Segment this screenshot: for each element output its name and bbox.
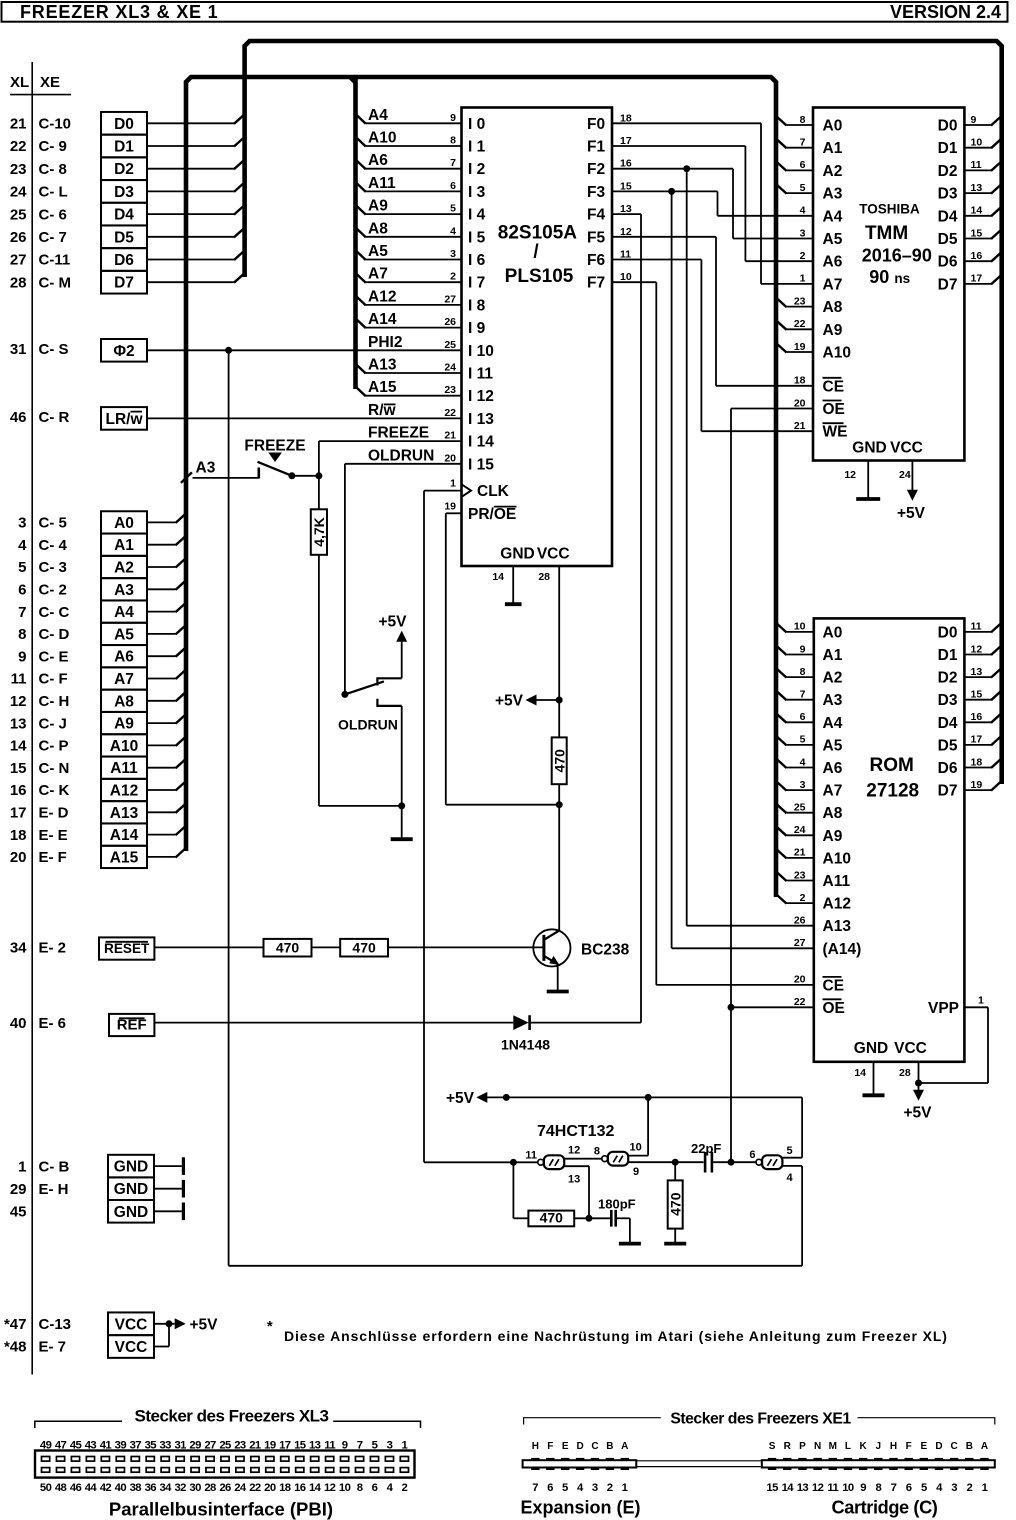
- svg-text:A: A: [981, 1441, 988, 1452]
- svg-text:D7: D7: [938, 276, 958, 293]
- svg-text:16: 16: [10, 782, 27, 799]
- svg-text:OE: OE: [823, 1000, 845, 1017]
- wire OLDRUN lower contact to ground node: [319, 706, 405, 810]
- svg-text:A7: A7: [114, 671, 134, 688]
- svg-text:15: 15: [10, 760, 27, 777]
- svg-text:3: 3: [800, 779, 806, 791]
- connector E pad B/2: [606, 1441, 614, 1494]
- wire A7 to address bus: [147, 669, 187, 679]
- +5V arrow at VCC pins: [175, 1316, 218, 1333]
- svg-text:C- H: C- H: [39, 693, 70, 710]
- svg-text:I 4: I 4: [468, 207, 486, 224]
- wire U3 A2 from address bus: [776, 668, 814, 678]
- wire U3 A10 from address bus: [776, 848, 814, 858]
- svg-text:*48: *48: [4, 1339, 27, 1356]
- connector E pad D/4: [576, 1441, 584, 1494]
- svg-text:5: 5: [787, 1145, 793, 1157]
- svg-text:3: 3: [450, 248, 456, 260]
- svg-text:D: D: [576, 1441, 583, 1452]
- svg-text:47: 47: [55, 1440, 67, 1452]
- svg-text:32: 32: [174, 1482, 186, 1494]
- connector C pad L/10: [842, 1441, 854, 1494]
- svg-text:E: E: [562, 1441, 569, 1452]
- svg-text:5: 5: [18, 559, 26, 576]
- wire D5 to data bus: [147, 227, 245, 237]
- svg-text:14: 14: [782, 1482, 795, 1494]
- wire F0 to RAM A7: [612, 123, 813, 284]
- svg-text:I 1: I 1: [468, 139, 486, 156]
- connector C pad K/9: [859, 1441, 868, 1494]
- wire U3 D6 to data bus: [964, 758, 1002, 768]
- svg-text:8: 8: [357, 1482, 363, 1494]
- svg-text:1: 1: [622, 1482, 628, 1494]
- svg-text:A4: A4: [114, 604, 134, 621]
- svg-text:A6: A6: [368, 152, 388, 169]
- resistor 470 (oscillator vertical): [667, 1162, 683, 1228]
- svg-text:9: 9: [860, 1482, 866, 1494]
- wire U1 input I12 from bus (A15): [355, 386, 461, 396]
- U1 pin name CLK: [462, 483, 510, 500]
- svg-text:A8: A8: [823, 299, 843, 316]
- svg-text:I 2: I 2: [468, 161, 485, 178]
- svg-text:4: 4: [800, 205, 806, 217]
- wire A6 to address bus: [147, 647, 187, 657]
- svg-text:23: 23: [234, 1440, 246, 1452]
- wire U2 D1 to data bus: [964, 138, 1002, 148]
- connector E pad H/7: [531, 1441, 539, 1494]
- wire U3 A0 from address bus: [776, 622, 814, 632]
- resistor 470 (RESET first): [264, 939, 312, 957]
- svg-text:I 11: I 11: [468, 366, 493, 383]
- svg-text:36: 36: [145, 1482, 157, 1494]
- svg-text:3: 3: [18, 515, 26, 532]
- wire U2 A8 from address bus: [776, 297, 814, 307]
- svg-text:16: 16: [971, 250, 983, 262]
- svg-text:A8: A8: [368, 220, 388, 237]
- wire D3 to data bus: [147, 182, 245, 192]
- wire F3 to RAM A4: [612, 191, 813, 215]
- pin table divider: [31, 62, 33, 1375]
- svg-text:C- R: C- R: [39, 409, 70, 426]
- connector XE1 expansion body: [523, 1460, 637, 1467]
- svg-text:D1: D1: [938, 647, 958, 664]
- svg-text:A2: A2: [114, 560, 134, 577]
- connector XL3 pad pair 49/50: [40, 1440, 52, 1494]
- svg-text:13: 13: [568, 1174, 580, 1186]
- pin row 40 E-6 box REF: [10, 1014, 155, 1036]
- svg-text:5: 5: [800, 182, 806, 194]
- svg-text:18: 18: [794, 375, 806, 387]
- svg-text:FREEZER XL3 & XE 1: FREEZER XL3 & XE 1: [20, 2, 218, 22]
- wire U1 input I0 from bus (A4): [355, 114, 461, 124]
- node F3 branch junction: [668, 188, 675, 195]
- pin row 29 E- H box GND: [10, 1177, 154, 1200]
- wire U2 A1 from address bus: [776, 138, 814, 148]
- svg-text:+5V: +5V: [446, 1090, 475, 1107]
- pin row 5 C- 3 box A2: [18, 556, 147, 578]
- svg-text:R: R: [784, 1441, 792, 1452]
- address bus: [186, 77, 776, 897]
- wire U2 A10 from address bus: [776, 343, 814, 353]
- U1 VCC pin 28 to +5V: [538, 566, 559, 737]
- svg-text:GND: GND: [500, 546, 534, 563]
- svg-text:Expansion (E): Expansion (E): [520, 1498, 640, 1518]
- svg-text:H: H: [532, 1441, 539, 1452]
- svg-text:6: 6: [906, 1482, 912, 1494]
- wire U2 D7 to data bus: [964, 274, 1002, 284]
- node 470 / 180pF / gate V1 pin13: [574, 1215, 610, 1222]
- wire A15 to address bus: [147, 847, 187, 857]
- capacitor 180pF: [598, 1197, 636, 1227]
- svg-text:A12: A12: [368, 288, 396, 305]
- svg-text:12: 12: [812, 1482, 824, 1494]
- wire U1 input I3 from bus (A11): [355, 182, 461, 192]
- svg-text:21: 21: [794, 847, 806, 859]
- pin row 34 E-2 box RESET: [10, 937, 155, 959]
- svg-text:C- 2: C- 2: [39, 582, 67, 599]
- connector XL3 pad pair 31/32: [174, 1440, 186, 1494]
- wire A12 to address bus: [147, 781, 187, 791]
- wire D2 to data bus: [147, 159, 245, 169]
- wire U3 A9 from address bus: [776, 826, 814, 836]
- wire D4 to data bus: [147, 205, 245, 215]
- svg-text:RESET: RESET: [104, 941, 150, 956]
- svg-text:1: 1: [18, 1158, 26, 1175]
- svg-text:K: K: [860, 1441, 868, 1452]
- svg-text:7: 7: [800, 137, 806, 149]
- svg-text:4: 4: [18, 537, 27, 554]
- svg-text:D6: D6: [938, 760, 958, 777]
- connector E pad C/3: [591, 1441, 599, 1494]
- svg-text:Parallelbusinterface (PBI): Parallelbusinterface (PBI): [109, 1499, 333, 1520]
- wire LR/W to U1 I13: [147, 417, 462, 419]
- connector XE1 cartridge body: [762, 1460, 995, 1467]
- wire A8 to address bus: [147, 691, 187, 701]
- svg-text:A11: A11: [110, 760, 138, 777]
- connector XL3 pad pair 29/30: [189, 1440, 201, 1494]
- svg-text:B: B: [606, 1441, 613, 1452]
- svg-text:F7: F7: [587, 275, 605, 292]
- data bus: [245, 41, 1002, 784]
- svg-text:A14: A14: [110, 827, 139, 844]
- gate V3 74HCT132 (pins 4,5,6): [749, 1145, 793, 1184]
- connector XL3 pad pair 33/34: [160, 1440, 173, 1494]
- wire U3 A8 from address bus: [776, 803, 814, 813]
- svg-text:1: 1: [978, 994, 984, 1006]
- wire F1 to RAM A6: [612, 146, 813, 261]
- svg-text:2: 2: [402, 1482, 408, 1494]
- svg-text:470: 470: [551, 749, 567, 773]
- svg-text:22: 22: [794, 318, 806, 330]
- svg-text:6: 6: [450, 180, 456, 192]
- svg-text:A1: A1: [823, 647, 843, 664]
- svg-text:A11: A11: [368, 175, 396, 192]
- connector XL3 pad pair 21/22: [249, 1440, 261, 1494]
- wire A10 to address bus: [147, 736, 187, 746]
- svg-text:F: F: [906, 1441, 912, 1452]
- svg-text:A8: A8: [823, 805, 843, 822]
- switch OLDRUN: [338, 678, 402, 732]
- wire gate V3 input 5 stub: [782, 1157, 802, 1159]
- wire GND 1 terminator: [154, 1157, 183, 1175]
- svg-text:FREEZE: FREEZE: [244, 437, 305, 454]
- svg-text:A9: A9: [823, 322, 843, 339]
- connector XL3 pad pair 41/42: [100, 1440, 112, 1494]
- svg-text:A13: A13: [368, 357, 397, 374]
- pin row 14 C- P box A10: [10, 734, 147, 756]
- svg-text:N: N: [814, 1441, 821, 1452]
- connector XE1 rails: [636, 1461, 762, 1467]
- connector XL3 pad pair 43/44: [85, 1440, 98, 1494]
- svg-text:8: 8: [450, 135, 456, 147]
- wire A4 to address bus: [147, 602, 187, 612]
- svg-text:C- 7: C- 7: [39, 229, 67, 246]
- wire U3 A7 from address bus: [776, 781, 814, 791]
- svg-text:Φ2: Φ2: [113, 343, 134, 360]
- wire A13 to address bus: [147, 803, 187, 813]
- svg-text:25: 25: [444, 339, 456, 351]
- wire U1 PR/OE pin 19: [446, 513, 462, 804]
- address bus branch to U1 inputs: [353, 79, 358, 389]
- svg-text:15: 15: [971, 689, 983, 701]
- svg-text:29: 29: [189, 1440, 201, 1452]
- wire U3 A5 from address bus: [776, 735, 814, 745]
- U2 ground pin 12: [844, 461, 880, 500]
- svg-text:A3: A3: [823, 186, 843, 203]
- wire F2 to RAM A5: [612, 169, 813, 239]
- svg-text:BC238: BC238: [581, 942, 630, 959]
- connector C pad M/11: [827, 1441, 838, 1494]
- svg-text:C- M: C- M: [39, 274, 72, 291]
- svg-text:28: 28: [538, 571, 550, 583]
- svg-text:E- 7: E- 7: [39, 1339, 67, 1356]
- wire A5 to address bus: [147, 624, 187, 634]
- svg-text:45: 45: [10, 1204, 27, 1221]
- svg-text:1: 1: [982, 1482, 988, 1494]
- svg-text:3: 3: [951, 1482, 957, 1494]
- wire BC238 collector to node: [558, 805, 560, 931]
- wire U2 D4 to data bus: [964, 206, 1002, 216]
- wire U1 input I6 from bus (A5): [355, 250, 461, 260]
- svg-text:C-10: C-10: [39, 116, 72, 133]
- svg-text:E- H: E- H: [39, 1181, 69, 1198]
- svg-text:9: 9: [450, 112, 456, 124]
- pin row *47 C-13 box VCC: [4, 1312, 154, 1335]
- svg-text:10: 10: [339, 1482, 351, 1494]
- svg-text:F2: F2: [587, 161, 605, 178]
- svg-text:ROM: ROM: [870, 755, 914, 776]
- pin row 8 C- D box A5: [18, 623, 147, 645]
- svg-text:A5: A5: [823, 231, 843, 248]
- ground at OLDRUN/4,7K node: [401, 806, 403, 838]
- svg-text:F4: F4: [587, 207, 605, 224]
- svg-text:D5: D5: [114, 229, 134, 246]
- svg-text:TOSHIBA: TOSHIBA: [859, 201, 920, 216]
- svg-text:E- F: E- F: [39, 849, 67, 866]
- svg-text:22: 22: [249, 1482, 261, 1494]
- connector XL3 pad pair 13/14: [309, 1440, 322, 1494]
- svg-text:A2: A2: [823, 670, 843, 687]
- svg-text:7: 7: [891, 1482, 897, 1494]
- wire FREEZE net to U1 I14: [319, 441, 462, 476]
- svg-text:15: 15: [294, 1440, 306, 1452]
- svg-text:D1: D1: [938, 140, 958, 157]
- svg-text:4: 4: [800, 756, 806, 768]
- svg-text:31: 31: [10, 341, 27, 358]
- svg-text:13: 13: [797, 1482, 809, 1494]
- svg-text:11: 11: [827, 1482, 838, 1494]
- svg-text:9: 9: [633, 1166, 639, 1178]
- wire GND 45 terminator: [154, 1203, 183, 1221]
- svg-text:19: 19: [264, 1440, 276, 1452]
- resistor 470 (oscillator): [528, 1210, 574, 1227]
- wire U1 input I7 from bus (A7): [355, 273, 461, 283]
- svg-text:A9: A9: [368, 198, 388, 215]
- wire U3 D7 to data bus: [964, 781, 1002, 791]
- svg-text:6: 6: [800, 711, 806, 723]
- svg-text:D0: D0: [938, 624, 958, 641]
- pin row 26 C- 7 box D5: [10, 225, 147, 248]
- pin row 9 C- E box A6: [18, 645, 147, 667]
- svg-text:C- D: C- D: [39, 626, 70, 643]
- svg-text:B: B: [966, 1441, 973, 1452]
- svg-text:CE: CE: [823, 378, 845, 395]
- svg-text:F6: F6: [587, 252, 605, 269]
- svg-text:I 7: I 7: [468, 275, 485, 292]
- svg-text:I 14: I 14: [468, 434, 494, 451]
- svg-text:34: 34: [10, 940, 27, 957]
- svg-text:A6: A6: [823, 254, 843, 271]
- U2 pin name CE: [823, 378, 845, 396]
- svg-text:10: 10: [794, 621, 806, 633]
- svg-text:12: 12: [844, 469, 856, 481]
- svg-text:470: 470: [540, 1210, 564, 1226]
- wire U2 D6 to data bus: [964, 252, 1002, 262]
- svg-text:34: 34: [160, 1482, 173, 1494]
- svg-text:25: 25: [219, 1440, 231, 1452]
- node F2 branch junction: [683, 165, 690, 172]
- svg-text:20: 20: [794, 397, 806, 409]
- wire A11 to address bus: [147, 758, 187, 768]
- +5V arrow at U1 VCC: [495, 693, 559, 710]
- connector XL3 pad pair 25/26: [219, 1440, 231, 1494]
- svg-text:14: 14: [854, 1067, 866, 1079]
- svg-text:A0: A0: [823, 118, 843, 135]
- svg-text:31: 31: [174, 1440, 186, 1452]
- svg-text:470: 470: [276, 940, 300, 956]
- svg-text:28: 28: [204, 1482, 216, 1494]
- connector XL3 pad pair 47/48: [55, 1440, 67, 1494]
- svg-text:13: 13: [971, 182, 983, 194]
- svg-text:A10: A10: [823, 850, 851, 867]
- svg-text:GND: GND: [854, 1040, 888, 1057]
- wire U3 D0 to data bus: [964, 622, 1002, 632]
- connector XL3 pad pair 23/24: [234, 1440, 247, 1494]
- svg-text:24: 24: [794, 824, 806, 836]
- title bar frame: [2, 2, 1008, 22]
- svg-text:12: 12: [568, 1145, 580, 1157]
- svg-text:2: 2: [607, 1482, 613, 1494]
- connector XL3 pad pair 45/46: [70, 1440, 82, 1494]
- svg-text:PLS105: PLS105: [505, 266, 574, 287]
- pin row 11 C- F box A7: [11, 667, 147, 689]
- wire U3 D2 to data bus: [964, 668, 1002, 678]
- svg-text:22: 22: [794, 996, 806, 1008]
- node +5V rail to gate V2 input 10: [645, 1094, 652, 1101]
- ground at 470 vertical: [674, 1229, 676, 1243]
- node PHI2 junction: [225, 347, 232, 354]
- svg-text:7: 7: [450, 157, 456, 169]
- wire D6 to data bus: [147, 250, 245, 260]
- svg-text:E- D: E- D: [39, 805, 69, 822]
- switch FREEZE: [244, 437, 305, 478]
- pin row 46 C-R box LR/W: [10, 407, 147, 430]
- svg-text:49: 49: [40, 1440, 52, 1452]
- svg-text:PR/OE: PR/OE: [468, 506, 516, 523]
- connector E pad E/5: [561, 1441, 569, 1494]
- svg-text:A12: A12: [823, 896, 851, 913]
- pin row *48 E- 7 box VCC: [4, 1335, 154, 1358]
- svg-text:F: F: [547, 1441, 553, 1452]
- svg-text:6: 6: [372, 1482, 378, 1494]
- svg-text:C- S: C- S: [39, 341, 69, 358]
- wire U3 A6 from address bus: [776, 758, 814, 768]
- svg-text:1: 1: [450, 477, 456, 489]
- svg-text:470: 470: [667, 1192, 683, 1216]
- svg-text:15: 15: [971, 227, 983, 239]
- svg-text:4: 4: [787, 1172, 794, 1184]
- svg-text:A5: A5: [823, 737, 843, 754]
- connector XL3 pad pair 3/4: [385, 1440, 393, 1494]
- connector C pad R/14: [782, 1441, 795, 1494]
- ROM U3 27128 body: [814, 618, 965, 1061]
- svg-text:46: 46: [70, 1482, 82, 1494]
- svg-text:D1: D1: [114, 139, 134, 156]
- svg-text:38: 38: [130, 1482, 142, 1494]
- connector XL3 pad pair 27/28: [204, 1440, 216, 1494]
- svg-text:VCC: VCC: [537, 546, 570, 563]
- wire U2 D0 to data bus: [964, 116, 1002, 126]
- svg-text:C-13: C-13: [39, 1316, 72, 1333]
- svg-text:P: P: [799, 1441, 806, 1452]
- svg-text:21: 21: [249, 1440, 261, 1452]
- svg-text:C- 3: C- 3: [39, 559, 67, 576]
- svg-text:E: E: [920, 1441, 927, 1452]
- connector C pad B/2: [965, 1441, 973, 1494]
- svg-text:A0: A0: [823, 624, 843, 641]
- svg-text:F5: F5: [587, 229, 605, 246]
- svg-text:8: 8: [18, 626, 26, 643]
- svg-text:8: 8: [594, 1145, 600, 1157]
- svg-text:19: 19: [971, 779, 983, 791]
- svg-text:D4: D4: [114, 207, 134, 224]
- svg-text:23: 23: [794, 295, 806, 307]
- resistor 470 (RESET second): [340, 939, 388, 957]
- U2 pin name OE: [823, 401, 845, 419]
- svg-text:C- 9: C- 9: [39, 138, 67, 155]
- +5V arrow at oscillator rail: [446, 1090, 487, 1107]
- svg-text:30: 30: [189, 1482, 201, 1494]
- svg-text:GND: GND: [114, 1204, 148, 1221]
- connector XE1 title: [524, 1411, 995, 1428]
- svg-text:FREEZE: FREEZE: [368, 425, 429, 442]
- svg-text:D3: D3: [938, 692, 958, 709]
- wire U2 A9 from address bus: [776, 320, 814, 330]
- svg-text:22: 22: [444, 407, 456, 419]
- pin row 1 C- B box GND: [18, 1155, 154, 1178]
- svg-text:12: 12: [971, 643, 983, 655]
- svg-text:I 3: I 3: [468, 184, 486, 201]
